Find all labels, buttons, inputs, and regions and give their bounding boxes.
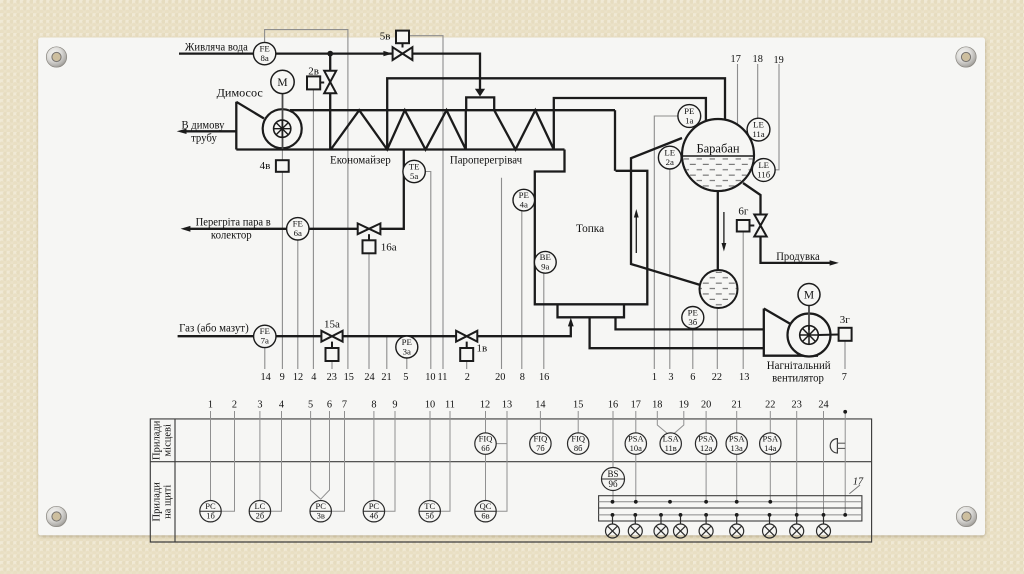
svg-text:ТЕ5а: ТЕ5а <box>409 161 420 181</box>
svg-text:LC2б: LC2б <box>254 501 265 520</box>
svg-text:16: 16 <box>608 400 618 411</box>
svg-text:5: 5 <box>308 400 313 411</box>
svg-text:2: 2 <box>465 372 470 383</box>
svg-text:6г: 6г <box>738 206 749 218</box>
svg-text:5в: 5в <box>380 30 391 42</box>
svg-text:15: 15 <box>573 400 583 411</box>
svg-text:TC5б: TC5б <box>424 501 435 520</box>
svg-text:2в: 2в <box>308 66 319 78</box>
svg-text:14: 14 <box>260 372 270 383</box>
svg-text:Барабан: Барабан <box>696 141 739 155</box>
svg-text:6: 6 <box>327 400 332 411</box>
svg-text:BS9б: BS9б <box>607 469 618 489</box>
svg-text:FE7а: FE7а <box>260 326 270 346</box>
svg-text:Топка: Топка <box>576 221 605 235</box>
svg-text:17: 17 <box>631 400 641 411</box>
svg-text:Димосос: Димосос <box>217 86 263 100</box>
svg-text:Економайзер: Економайзер <box>330 152 391 166</box>
svg-text:3г: 3г <box>840 314 851 326</box>
svg-text:3: 3 <box>668 372 673 383</box>
svg-text:3: 3 <box>257 400 262 411</box>
svg-text:21: 21 <box>381 372 391 383</box>
svg-text:10: 10 <box>425 372 435 383</box>
svg-text:11: 11 <box>445 400 455 411</box>
svg-text:місцеві: місцеві <box>163 424 174 456</box>
svg-text:20: 20 <box>495 372 505 383</box>
svg-text:7: 7 <box>842 372 847 383</box>
svg-text:Живляча вода: Живляча вода <box>185 39 249 53</box>
svg-text:Газ (або мазут): Газ (або мазут) <box>179 320 249 334</box>
svg-text:8: 8 <box>371 400 376 411</box>
svg-text:РЕ1а: РЕ1а <box>684 106 694 126</box>
svg-text:РЕ3б: РЕ3б <box>688 307 698 327</box>
svg-text:24: 24 <box>818 400 828 411</box>
svg-text:13: 13 <box>502 400 512 411</box>
svg-text:PC4б: PC4б <box>369 501 380 520</box>
svg-text:9: 9 <box>392 400 397 411</box>
svg-text:14: 14 <box>535 400 545 411</box>
svg-text:PC1б: PC1б <box>205 501 216 520</box>
svg-text:12: 12 <box>480 400 490 411</box>
svg-text:Прилади: Прилади <box>152 482 163 522</box>
svg-text:19: 19 <box>773 55 783 66</box>
svg-text:8: 8 <box>520 372 525 383</box>
svg-text:17: 17 <box>731 54 741 65</box>
svg-text:вентилятор: вентилятор <box>772 370 824 384</box>
svg-text:12: 12 <box>293 372 303 383</box>
svg-text:7: 7 <box>342 400 347 411</box>
svg-text:Пароперегрівач: Пароперегрівач <box>450 152 522 166</box>
svg-text:18: 18 <box>753 54 763 65</box>
svg-text:на щиті: на щиті <box>163 485 174 519</box>
svg-text:5: 5 <box>403 372 408 383</box>
svg-text:В димову: В димову <box>182 117 225 131</box>
svg-text:21: 21 <box>732 400 742 411</box>
svg-text:24: 24 <box>364 372 374 383</box>
svg-text:22: 22 <box>765 400 775 411</box>
svg-text:2: 2 <box>232 400 237 411</box>
svg-text:FE8а: FE8а <box>259 43 269 63</box>
svg-text:15а: 15а <box>324 318 340 330</box>
svg-text:23: 23 <box>792 400 802 411</box>
svg-text:15: 15 <box>344 372 354 383</box>
svg-text:11: 11 <box>438 372 448 383</box>
svg-text:1: 1 <box>208 400 213 411</box>
svg-text:LE11а: LE11а <box>752 119 764 138</box>
svg-text:1в: 1в <box>477 342 488 354</box>
svg-text:22: 22 <box>712 372 722 383</box>
svg-text:Прилади: Прилади <box>152 420 163 460</box>
svg-text:М: М <box>277 77 287 89</box>
svg-text:16а: 16а <box>381 241 397 253</box>
svg-text:18: 18 <box>652 400 662 411</box>
svg-text:РЕ4а: РЕ4а <box>519 190 529 210</box>
svg-text:трубу: трубу <box>191 131 217 145</box>
svg-text:19: 19 <box>679 400 689 411</box>
svg-text:М: М <box>804 290 814 302</box>
svg-text:Продувка: Продувка <box>776 249 820 263</box>
svg-text:FE6а: FE6а <box>293 219 303 239</box>
svg-text:20: 20 <box>701 400 711 411</box>
svg-text:16: 16 <box>539 372 549 383</box>
svg-text:колектор: колектор <box>211 227 252 241</box>
svg-text:LE2а: LE2а <box>664 147 675 167</box>
svg-text:4: 4 <box>279 400 284 411</box>
svg-text:23: 23 <box>327 372 337 383</box>
svg-text:ВЕ9а: ВЕ9а <box>540 252 551 272</box>
svg-text:PC3в: PC3в <box>315 501 326 520</box>
svg-text:4в: 4в <box>260 160 271 172</box>
svg-text:LE11б: LE11б <box>757 160 770 180</box>
svg-text:1: 1 <box>652 372 657 383</box>
svg-text:4: 4 <box>311 372 316 383</box>
svg-text:9: 9 <box>280 372 285 383</box>
svg-text:РЕ3а: РЕ3а <box>402 337 412 357</box>
svg-text:6: 6 <box>690 372 695 383</box>
svg-text:13: 13 <box>739 372 749 383</box>
svg-text:10: 10 <box>425 400 435 411</box>
